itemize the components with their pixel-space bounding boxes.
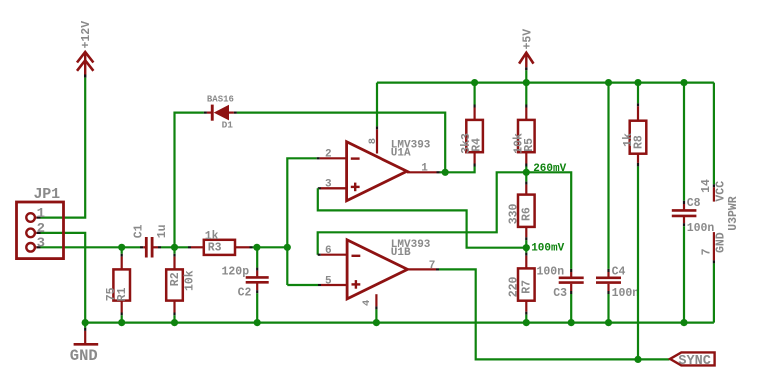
svg-text:U1A: U1A: [391, 147, 411, 159]
wire R3 to op-amp node: [253, 246, 288, 248]
net label 260mV: [533, 163, 566, 175]
svg-text:100n: 100n: [537, 266, 565, 279]
junction GND rail R1: [118, 319, 125, 326]
op-amp U1A: [320, 126, 446, 201]
IC power symbol U3PWR pin 14 VCC: [700, 83, 740, 231]
svg-text:10k: 10k: [184, 270, 197, 291]
resistor R3: [191, 230, 253, 255]
svg-text:2: 2: [325, 149, 332, 161]
wire U1B pin 4 to GND rail: [375, 309, 377, 322]
svg-text:R3: R3: [208, 241, 222, 254]
junction GND rail R2: [171, 319, 178, 326]
resistor R2: [166, 247, 196, 322]
junction GND rail R7: [523, 319, 530, 326]
svg-text:SYNC: SYNC: [678, 354, 710, 367]
svg-text:100n: 100n: [612, 287, 640, 300]
IC power symbol U3PWR pin 7 GND: [701, 232, 728, 323]
power symbol +5V: [519, 29, 535, 83]
wire U1B output to SYNC: [439, 269, 670, 359]
power symbol +12V: [77, 21, 93, 78]
svg-text:1u: 1u: [156, 224, 169, 238]
svg-text:100n: 100n: [687, 222, 715, 235]
wire D1 to U1A output node: [237, 113, 445, 173]
svg-text:10k: 10k: [512, 133, 525, 154]
junction +5V rail R5: [523, 79, 530, 86]
capacitor C3: [537, 266, 584, 323]
svg-text:3k3: 3k3: [460, 133, 473, 154]
svg-text:GND: GND: [70, 347, 98, 365]
op-amp U1B: [321, 239, 439, 309]
svg-text:4: 4: [361, 300, 373, 306]
svg-text:1k: 1k: [622, 133, 635, 147]
svg-text:+12V: +12V: [80, 21, 93, 49]
junction signal/C2: [253, 244, 260, 251]
diode D1: [175, 94, 237, 247]
wire U1A pin 3 to 100mV node: [318, 188, 527, 247]
svg-text:7: 7: [701, 248, 714, 255]
svg-text:U3PWR: U3PWR: [727, 196, 740, 231]
capacitor C8: [672, 83, 715, 323]
svg-text:C3: C3: [553, 287, 567, 300]
wire +12V to JP1 pin 1: [41, 78, 86, 218]
svg-text:120p: 120p: [222, 266, 250, 279]
svg-text:75: 75: [105, 287, 118, 301]
junction GND rail C8: [680, 319, 687, 326]
svg-text:5: 5: [325, 275, 332, 287]
capacitor C2: [222, 247, 269, 322]
junction 260mV node: [523, 169, 530, 176]
wire JP1 pin 3 signal to C1: [41, 246, 144, 248]
svg-text:VCC: VCC: [714, 181, 727, 202]
svg-text:C4: C4: [612, 265, 626, 278]
svg-text:R7: R7: [520, 280, 533, 294]
svg-text:R6: R6: [520, 207, 533, 221]
resistor R4: [460, 83, 483, 167]
junction +5V rail C4: [605, 79, 612, 86]
svg-text:R1: R1: [116, 287, 129, 301]
svg-text:U1B: U1B: [391, 247, 411, 259]
svg-text:330: 330: [508, 203, 521, 224]
svg-text:7: 7: [429, 260, 436, 272]
capacitor C1: [132, 224, 169, 257]
ground: [70, 323, 98, 365]
junction SYNC line R8: [634, 356, 641, 363]
resistor R7: [508, 248, 535, 323]
svg-text:BAS16: BAS16: [207, 94, 234, 104]
svg-text:100mV: 100mV: [531, 243, 564, 255]
junction signal/R2/D1: [171, 244, 178, 251]
junction GND rail C2: [254, 319, 261, 326]
junction GND rail left: [82, 319, 89, 326]
junction GND rail C3: [568, 319, 575, 326]
resistor R5: [512, 83, 536, 173]
wire 260mV node to U1B pin 6: [318, 172, 527, 254]
connector JP1: [17, 186, 64, 258]
svg-text:1: 1: [37, 206, 45, 222]
junction GND rail U1B pin4: [373, 319, 380, 326]
junction signal to op-amp inputs: [284, 244, 291, 251]
junction 100mV node: [523, 244, 530, 251]
+5V rail: [377, 81, 714, 83]
svg-text:R2: R2: [169, 272, 182, 286]
wire JP1 pin 2 to GND rail: [41, 233, 86, 323]
wire R4 to U1A output node: [445, 167, 474, 173]
resistor R6: [508, 172, 535, 247]
junction +5V rail R8: [634, 79, 641, 86]
wire U1A pin 8 to +5V rail: [376, 83, 378, 127]
svg-text:1: 1: [421, 163, 428, 175]
resistor R1: [105, 247, 130, 322]
svg-text:6: 6: [325, 245, 332, 257]
junction U1A output node: [442, 169, 449, 176]
svg-text:220: 220: [508, 276, 521, 297]
svg-text:8: 8: [367, 138, 379, 144]
svg-text:GND: GND: [715, 232, 728, 253]
wire signal node up to U1A pin 2 and down to U1B pin 5: [287, 158, 321, 285]
wire 260mV node to C3: [526, 172, 571, 269]
svg-text:C1: C1: [132, 224, 145, 238]
resistor R8: [622, 83, 646, 167]
svg-text:+5V: +5V: [522, 29, 535, 50]
svg-text:C8: C8: [687, 197, 701, 210]
junction +5V rail R4: [471, 79, 478, 86]
wire C1 to R3 (node with R2, D1): [161, 246, 191, 248]
svg-text:JP1: JP1: [34, 186, 61, 203]
junction signal/R1: [118, 244, 125, 251]
svg-text:3: 3: [37, 236, 45, 252]
junction +5V rail C8: [680, 79, 687, 86]
junction GND rail C4: [605, 319, 612, 326]
net label 100mV: [531, 243, 564, 255]
GND rail: [85, 322, 714, 324]
svg-text:D1: D1: [222, 120, 234, 131]
net flag SYNC: [670, 352, 715, 367]
svg-text:14: 14: [700, 179, 713, 193]
capacitor C4: [596, 83, 639, 323]
svg-text:C2: C2: [238, 287, 252, 300]
wire R8 down to SYNC line: [637, 166, 639, 359]
